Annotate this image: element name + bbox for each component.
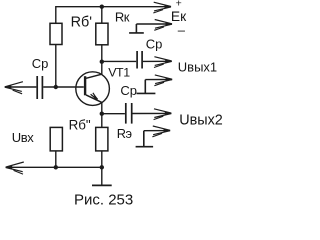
arrow Uвых1 lower terminal	[145, 75, 172, 86]
svg-text:–: –	[178, 22, 186, 37]
node Rэ bottom rail junction	[100, 165, 104, 169]
arrow Uвых1 upper terminal	[143, 57, 172, 68]
label Rк	[115, 10, 130, 25]
ground	[92, 167, 112, 185]
transistor VT1	[76, 72, 110, 106]
resistor Rэ	[96, 127, 108, 150]
svg-text:Uвх: Uвх	[12, 130, 34, 145]
label Uвых1	[178, 59, 217, 74]
arrow Ек plus terminal	[153, 2, 171, 13]
wire emitter node to output cap2	[102, 113, 125, 115]
node collector junction	[100, 60, 104, 64]
label Uвх	[12, 130, 34, 145]
label Rб''	[69, 118, 91, 133]
wire collector branch (rail to Rк to collector node)	[101, 7, 103, 62]
label Cр input	[32, 56, 49, 71]
wire emitter down to node	[101, 102, 103, 127]
wire top supply rail	[56, 7, 171, 45]
capacitor Cр output1	[137, 51, 142, 69]
label Cр output1	[146, 36, 163, 51]
capacitor Cр output2	[126, 103, 132, 124]
node top rail junction	[100, 5, 104, 9]
capacitor Cр input	[37, 76, 42, 99]
arrow Uвых2 lower terminal	[144, 126, 171, 137]
wire Rб' bottom to base node	[55, 45, 57, 88]
svg-text:Рис. 253: Рис. 253	[74, 191, 133, 208]
svg-text:Rэ: Rэ	[117, 126, 132, 141]
wire Rэ bottom lead	[101, 151, 103, 167]
node Rб'' bottom rail junction	[54, 165, 58, 169]
label minus	[178, 22, 186, 37]
svg-text:Uвых1: Uвых1	[178, 59, 217, 74]
svg-text:Rк: Rк	[115, 10, 130, 25]
svg-text:Rб": Rб"	[69, 118, 91, 133]
arrow Uвых2 upper terminal	[133, 109, 172, 120]
resistor Rб''	[50, 127, 62, 150]
svg-text:Uвых2: Uвых2	[179, 112, 223, 128]
label VT1	[108, 66, 130, 80]
svg-text:Cр: Cр	[120, 83, 137, 98]
label Ек	[171, 9, 187, 24]
svg-text:Cр: Cр	[146, 36, 163, 51]
label plus	[176, 0, 182, 9]
label Cр output2	[120, 83, 137, 98]
caption Рис. 253	[74, 191, 133, 208]
svg-text:Rб': Rб'	[71, 14, 93, 30]
node base junction	[54, 85, 58, 89]
wire collector into transistor	[101, 62, 103, 75]
label Rэ	[117, 126, 132, 141]
svg-text:VT1: VT1	[108, 66, 130, 80]
wire input cap to base	[43, 86, 84, 88]
svg-text:+: +	[176, 0, 182, 9]
arrow Uвх lower terminal (points left)	[5, 162, 102, 174]
label Uвых2	[179, 112, 223, 128]
arrow Ек minus terminal	[136, 20, 172, 31]
svg-text:Cр: Cр	[32, 56, 49, 71]
wire Uвых2 lower corner step	[136, 131, 154, 147]
node emitter junction	[100, 112, 104, 116]
resistor Rб'	[50, 23, 62, 44]
resistor Rк	[96, 23, 108, 45]
arrow Uвх upper terminal (points left)	[4, 82, 36, 94]
wire Ек minus corner step	[129, 24, 144, 33]
label Rб'	[71, 14, 93, 30]
wire Rб'' bottom lead	[55, 151, 57, 167]
wire Uвых1 lower corner step	[137, 80, 156, 94]
wire collector node to output cap1	[102, 60, 136, 62]
